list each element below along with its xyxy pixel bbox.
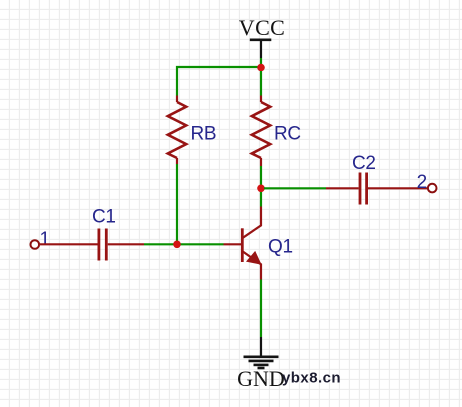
svg-text:C2: C2 — [352, 153, 376, 174]
svg-text:1: 1 — [40, 229, 50, 250]
svg-text:GND: GND — [237, 366, 285, 391]
wire top rail to RB — [177, 67, 261, 96]
wire C1 to base node to transistor — [144, 243, 224, 245]
resistor RB — [168, 96, 186, 165]
ground — [244, 337, 279, 368]
resistor RC — [252, 96, 270, 167]
wire collector node to C2 — [264, 187, 326, 189]
svg-text:RC: RC — [274, 124, 301, 145]
svg-text:Q1: Q1 — [268, 236, 293, 257]
capacitor C1 — [39, 229, 144, 261]
svg-text:2: 2 — [417, 172, 427, 193]
wire RB bottom to base node — [176, 164, 178, 244]
svg-text:VCC: VCC — [239, 15, 285, 40]
junction dot at VCC node — [257, 64, 265, 72]
wire RC bottom to collector node — [260, 166, 262, 188]
port 1 — [31, 240, 40, 249]
svg-text:RB: RB — [191, 124, 217, 145]
wire VCC node down to RC — [260, 71, 262, 96]
junction dot at collector node — [257, 185, 265, 193]
capacitor C2 — [326, 173, 428, 205]
wire emitter to ground — [260, 280, 262, 338]
junction dot at base node — [173, 241, 181, 249]
wire VCC lead to top rail — [260, 58, 262, 67]
power symbol VCC — [239, 15, 285, 58]
svg-text:C1: C1 — [92, 207, 116, 228]
transistor Q1 — [224, 207, 262, 280]
port 2 — [428, 184, 437, 193]
svg-text:ybx8.cn: ybx8.cn — [282, 370, 341, 387]
wire collector node to transistor collector — [260, 192, 262, 207]
